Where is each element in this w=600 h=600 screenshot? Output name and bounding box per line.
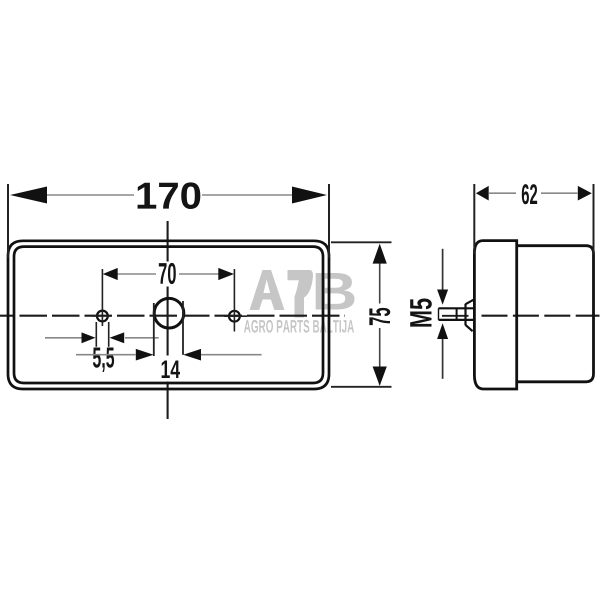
central bulb circle [154, 298, 184, 328]
dimension 170 line [47, 194, 292, 196]
dimension 5.5 label [93, 348, 114, 372]
dimension 14 extension lines [154, 301, 183, 356]
front view inner lens outline [14, 247, 323, 383]
dimension 62 extension lines [474, 184, 593, 254]
dimension M5 line [442, 249, 444, 379]
dimension 14 line [76, 354, 262, 356]
dimension 170 arrowheads [10, 187, 327, 204]
dimension 14 label [162, 360, 180, 378]
side view housing outline [517, 246, 594, 382]
dimension 62 arrowheads [476, 186, 592, 201]
dimension 75 line [379, 246, 381, 385]
dimension M5 arrowheads [437, 290, 448, 340]
dimension 75 arrowheads [373, 244, 387, 386]
dimension 170 extension lines [8, 184, 329, 258]
dimension 5.5 extension lines [96, 322, 108, 347]
dimension M5 label [410, 299, 432, 327]
dimension 70 arrowheads [103, 268, 234, 280]
dimension 14 arrowheads [136, 349, 201, 361]
dimension 62 line [489, 192, 578, 194]
right mounting hole [224, 311, 247, 322]
front view outer body outline [8, 241, 329, 389]
dimension 70 line [118, 273, 219, 275]
side view dashed centerline [442, 315, 600, 317]
dimension 75 label [369, 308, 390, 325]
side view lens dome outline [474, 241, 516, 389]
dimension 5.5 line [45, 337, 159, 339]
dimension 75 extension lines [331, 242, 392, 386]
M5 mounting stud [439, 308, 474, 320]
dimension 5.5 arrowheads [82, 332, 125, 343]
dimension 62 label [522, 184, 537, 204]
dimension 70 label [159, 263, 176, 284]
dimension 170 label [138, 182, 201, 209]
left mounting hole [92, 311, 111, 322]
stud nut profile [466, 300, 474, 331]
front view horizontal centerline [0, 315, 345, 317]
watermark APB logo [250, 270, 355, 318]
front view vertical centerline [167, 221, 169, 419]
watermark AGRO PARTS BALTIJA [244, 320, 354, 333]
dimension 70 extension lines [102, 269, 234, 332]
